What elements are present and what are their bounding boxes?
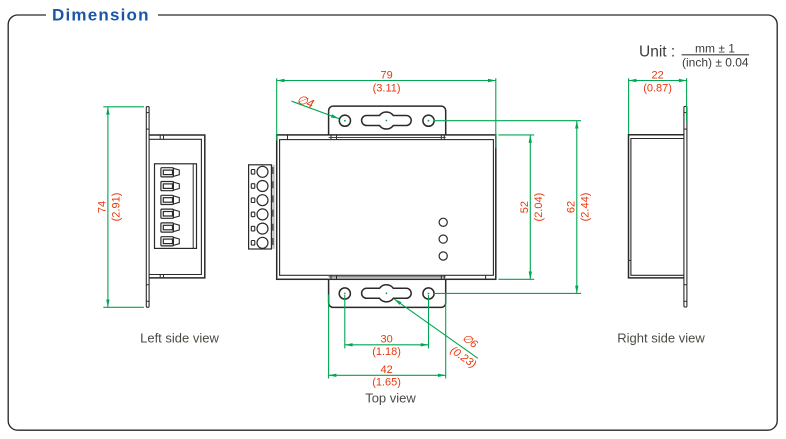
bottom mounting plate: [329, 275, 446, 307]
svg-text:42: 42: [380, 364, 392, 376]
right body outline: [629, 135, 684, 278]
bottom plate hole right: [423, 288, 434, 299]
dim 42: [329, 295, 446, 389]
svg-text:∅6: ∅6: [460, 332, 480, 351]
svg-text:mm ± 1: mm ± 1: [695, 41, 735, 55]
svg-text:∅4: ∅4: [295, 92, 316, 111]
top view body: [277, 135, 496, 279]
label Left side view: [140, 330, 219, 345]
dim dia6: [394, 299, 488, 371]
svg-text:Unit :: Unit :: [639, 44, 675, 61]
svg-text:62: 62: [565, 201, 577, 213]
svg-text:(inch) ± 0.04: (inch) ± 0.04: [682, 56, 749, 70]
left flange plate: [146, 107, 149, 308]
terminal screw 4: [161, 209, 179, 218]
dim 74: [96, 107, 143, 307]
dim 79: [277, 69, 496, 148]
bottom plate hole left: [339, 288, 350, 299]
terminal block circle 3: [251, 195, 268, 206]
svg-text:(1.65): (1.65): [372, 376, 401, 388]
terminal block circle 1: [251, 166, 268, 177]
svg-text:Top view: Top view: [365, 390, 416, 405]
top plate hole right: [423, 115, 434, 126]
svg-text:Dimension: Dimension: [52, 6, 150, 25]
svg-text:30: 30: [380, 334, 392, 346]
svg-text:(0.87): (0.87): [643, 83, 672, 95]
terminal screw 2: [161, 182, 179, 191]
right flange plate: [684, 106, 687, 307]
terminal screw 3: [161, 195, 179, 204]
left body outline: [149, 135, 205, 278]
label Right side view: [617, 330, 705, 345]
terminal block circle 4: [251, 209, 268, 220]
left terminal block: [155, 164, 197, 249]
svg-text:52: 52: [519, 201, 531, 213]
svg-text:(3.11): (3.11): [373, 83, 401, 95]
svg-text:79: 79: [380, 69, 392, 81]
dim dia4: [292, 92, 340, 119]
label Top view: [365, 390, 416, 405]
terminal block circle 5: [251, 223, 268, 234]
title Dimension: [52, 6, 150, 25]
bottom plate slot: [362, 285, 412, 302]
svg-text:Left side view: Left side view: [140, 330, 219, 345]
svg-text:22: 22: [651, 69, 663, 81]
svg-text:(2.91): (2.91): [111, 193, 123, 222]
svg-text:Right side view: Right side view: [617, 330, 705, 345]
top mounting plate: [329, 106, 446, 140]
dim 52: [498, 135, 544, 279]
terminal screw 6: [161, 237, 179, 246]
terminal block circle 6: [251, 237, 268, 248]
top view terminal block: [249, 165, 275, 249]
svg-text:74: 74: [96, 201, 108, 213]
terminal block circle 2: [251, 181, 268, 192]
svg-text:(2.04): (2.04): [533, 193, 545, 222]
dim 62: [434, 121, 592, 294]
dim 30: [345, 295, 429, 358]
top plate slot: [362, 112, 412, 129]
top plate hole left: [339, 115, 350, 126]
svg-text:(2.44): (2.44): [579, 193, 591, 222]
terminal screw 1: [161, 168, 179, 177]
svg-text:(1.18): (1.18): [372, 346, 401, 358]
terminal screw 5: [161, 223, 179, 232]
unit note: [639, 41, 749, 69]
LEDs: [439, 218, 447, 260]
dim 22: [629, 69, 687, 133]
